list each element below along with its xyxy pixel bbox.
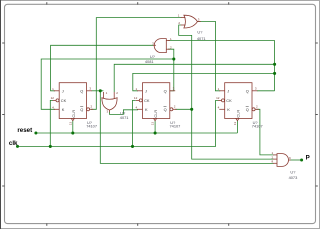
or-gate U3 4071 rotated down [102,92,117,112]
svg-text:12: 12 [51,96,55,100]
junction reset CLR1 [71,131,74,134]
wire clk to CK2 [133,100,136,146]
junction Q3 node lower [273,72,276,75]
svg-text:74107: 74107 [170,124,181,129]
wire Q3 stub to vertical [257,90,275,92]
wire clk to CK1 [50,100,53,146]
wire reset to CLR3 [236,121,238,134]
node P [300,159,303,162]
wire 4081 output to J1 [51,45,154,91]
svg-text:K: K [145,107,148,112]
node reset end [34,132,37,135]
svg-text:CLR: CLR [236,110,241,118]
wire reset net [36,132,238,134]
wire Q2 stub [169,90,173,92]
svg-text:74107: 74107 [252,124,263,129]
svg-text:P: P [306,155,310,162]
svg-text:CLR: CLR [71,110,76,118]
svg-text:U?: U? [197,30,203,35]
wire OR2 output to K2 [110,110,139,115]
junction clk CK2 [131,145,134,148]
node clk end [16,145,19,148]
svg-text:CLR: CLR [153,110,158,118]
junction Q2 node [172,57,175,60]
svg-text:Q: Q [164,107,167,112]
wire Q3 net to J2 [133,73,275,90]
svg-text:13: 13 [68,122,72,126]
wire clk net [18,100,219,146]
wire OR1 output to J3 [198,21,221,90]
wire reset to CLR2 [154,121,156,134]
and-gate U2 4081 mirrored [153,39,170,53]
wire Q3 net to OR2 input2 [114,64,274,92]
or-gate U1 4071 [181,15,201,28]
junction Q2bar node [190,108,193,111]
wire Q1bar to OR1 input1 [91,18,182,110]
svg-text:Q: Q [164,88,167,93]
wire 4081 input1 to Q3 net [168,41,275,91]
svg-text:K: K [62,107,65,112]
wire 4081 input2 down to Q2 node [168,49,174,91]
svg-text:4071: 4071 [120,115,129,120]
junction Q1 node [99,89,102,92]
svg-text:12: 12 [216,96,220,100]
svg-text:4081: 4081 [145,59,154,64]
svg-text:4071: 4071 [197,36,206,41]
svg-text:clk: clk [9,140,18,147]
junction clk CK1 [49,145,52,148]
flip-flop U4 74107 [53,83,94,121]
wire Q3bar to 4073 input1 [256,109,273,155]
svg-text:reset: reset [17,127,32,134]
svg-text:Q: Q [80,88,83,93]
flip-flop U6 74107 [218,83,259,121]
wire Q1 output to OR2 input1 [92,90,104,92]
svg-text:13: 13 [233,122,237,126]
svg-text:CK: CK [226,98,232,103]
svg-text:Q: Q [246,107,249,112]
and-gate U7 4073 three-input [273,154,291,167]
svg-text:J: J [62,88,64,93]
svg-text:Q: Q [80,107,83,112]
wire Q1 down to 4073 input8 [100,91,273,164]
svg-text:J: J [145,88,147,93]
wire Q2bar to OR1-pin2 net [175,108,191,110]
svg-text:J: J [227,88,229,93]
wire 4073 output to P [290,159,301,161]
svg-text:Q: Q [246,88,249,93]
wire reset to CLR1 [72,121,74,134]
svg-text:K: K [227,107,230,112]
svg-text:4073: 4073 [289,175,298,180]
junction Q3 node upper [273,63,276,66]
svg-text:12: 12 [134,96,138,100]
svg-text:74107: 74107 [86,124,97,129]
junction reset CLR2 [154,131,157,134]
svg-text:CK: CK [144,98,150,103]
wire OR1 input2 jog down [179,25,274,159]
svg-text:13: 13 [151,122,155,126]
flip-flop U5 74107 [136,83,177,121]
wire Q2 node left to K1 [41,59,174,109]
svg-text:CK: CK [61,98,67,103]
